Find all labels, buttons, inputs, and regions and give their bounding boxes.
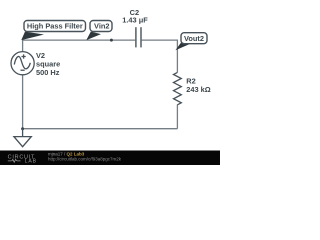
wire bottom rail xyxy=(23,128,178,130)
node junction dot at ground xyxy=(21,127,24,130)
node dot on top rail (Vin2 net) xyxy=(110,39,113,42)
wire right vertical bottom (R2 to bottom rail) xyxy=(176,105,178,129)
svg-text:http://circuitlab.com/c/f93a8p: http://circuitlab.com/c/f93a8pgc7m2k xyxy=(48,156,122,161)
footer bar xyxy=(0,151,220,166)
ground xyxy=(14,129,31,147)
wire right vertical top (corner to R2) xyxy=(176,40,178,73)
svg-text:LAB: LAB xyxy=(25,159,37,165)
svg-text:Vout2: Vout2 xyxy=(184,34,204,43)
voltage source V2 xyxy=(11,52,34,75)
wire top rail left of C2 xyxy=(23,39,136,41)
CircuitLab logo xyxy=(8,154,37,164)
wire top rail right of C2 xyxy=(142,39,178,41)
svg-text:500 Hz: 500 Hz xyxy=(36,68,60,77)
resistor R2 xyxy=(174,72,182,104)
wire left vertical top (corner to V2) xyxy=(22,40,24,52)
svg-text:243 kΩ: 243 kΩ xyxy=(186,85,210,94)
flag High Pass Filter xyxy=(21,21,85,41)
flag Vin2 xyxy=(86,21,112,41)
svg-text:1.43 μF: 1.43 μF xyxy=(122,15,148,24)
svg-text:Vin2: Vin2 xyxy=(94,22,109,31)
capacitor C2 xyxy=(136,27,141,47)
flag Vout2 xyxy=(175,33,207,51)
wire left vertical bottom (V2 to ground junction) xyxy=(22,75,24,129)
svg-text:High Pass Filter: High Pass Filter xyxy=(27,22,83,31)
